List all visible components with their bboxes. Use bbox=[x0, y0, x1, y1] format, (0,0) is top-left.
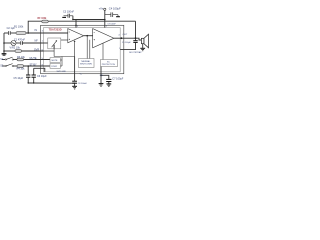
svg-text:BOOTSTRAP: BOOTSTRAP bbox=[129, 51, 142, 54]
wire ground pin drop bbox=[74, 57, 76, 81]
block THERMAL SHUTDOWN bbox=[79, 59, 95, 68]
op-amp A2 bbox=[93, 29, 114, 48]
wire S2 to R4 bbox=[13, 65, 17, 67]
svg-text:+Vs: +Vs bbox=[99, 7, 104, 11]
svg-text:ST-BY: ST-BY bbox=[30, 64, 38, 67]
capacitor CB bootstrap bbox=[133, 41, 137, 43]
wire out pin to bootstrap node bbox=[122, 37, 136, 39]
ground symbol bottom1 bbox=[72, 86, 77, 89]
capacitor C6 bbox=[32, 75, 36, 77]
wire R3 to pin 5 and MUTE block bbox=[24, 59, 51, 61]
wire pin 3 to A1 bbox=[44, 32, 68, 34]
node left rail row2 bbox=[3, 42, 5, 44]
wire thermal block top stub 2 bbox=[89, 40, 91, 59]
node ground rail end bbox=[74, 83, 75, 84]
wire MUTE block stub bbox=[60, 59, 62, 61]
svg-text:IN: IN bbox=[35, 29, 38, 32]
svg-text:ST-BY: ST-BY bbox=[51, 66, 58, 68]
svg-text:NF: NF bbox=[35, 39, 39, 42]
node C5 tap bbox=[27, 65, 29, 67]
block MUTE bbox=[50, 58, 60, 63]
ground for C4 bbox=[116, 15, 120, 17]
wire bootstrap node to speaker bbox=[136, 38, 142, 40]
op-amp A1 bbox=[68, 29, 84, 43]
wire switch S2 stub bbox=[2, 65, 5, 67]
wire ST-BY block stub bbox=[60, 65, 62, 67]
svg-text:SVR GND: SVR GND bbox=[57, 71, 67, 73]
svg-text:R3 10k: R3 10k bbox=[17, 56, 26, 59]
wire bottom ground rail bbox=[28, 82, 74, 84]
speaker LS1 bbox=[141, 38, 144, 43]
svg-text:C6 10µF: C6 10µF bbox=[37, 75, 47, 78]
wire pin 1 to volume control bbox=[44, 42, 48, 44]
wire input row1 mid bbox=[11, 32, 16, 34]
wire internal control bus bbox=[54, 56, 75, 58]
wire volume control to A1 bbox=[61, 39, 68, 41]
wire +Vs rail bbox=[73, 16, 105, 20]
wire to C7 bbox=[101, 75, 109, 79]
capacitor C8 bbox=[72, 81, 77, 83]
wire input row2 to pin 1 bbox=[22, 42, 43, 44]
switch S2 bbox=[5, 65, 6, 66]
block protection bbox=[101, 60, 118, 67]
svg-text:SHUTDOWN: SHUTDOWN bbox=[80, 64, 92, 66]
capacitor C7 bbox=[106, 79, 111, 81]
IC U1 TDA7233D inner box bbox=[44, 28, 121, 72]
ground left rail bbox=[2, 53, 7, 55]
wire input row2 left bbox=[4, 42, 11, 44]
node pin 2 outer box bbox=[75, 25, 77, 27]
wire S1 to R3 bbox=[13, 59, 17, 61]
node A1 output bbox=[86, 35, 88, 37]
wire RF to bootstrap corner bbox=[48, 20, 135, 22]
svg-text:R4 10k: R4 10k bbox=[17, 68, 26, 71]
svg-text:PROTECTION: PROTECTION bbox=[102, 64, 116, 66]
capacitor C4 bbox=[105, 12, 118, 17]
resistor R3 bbox=[17, 58, 24, 61]
wire left rail bbox=[3, 33, 5, 53]
wire input row3 left bbox=[4, 50, 15, 52]
capacitor C2 bbox=[9, 31, 11, 35]
svg-text:RF 100k: RF 100k bbox=[38, 18, 48, 20]
ground for speaker bbox=[140, 48, 145, 51]
block volume control bbox=[48, 38, 61, 49]
svg-text:C1 470nF: C1 470nF bbox=[14, 38, 25, 41]
wire A1 out to A2 bbox=[84, 35, 93, 37]
source V1 bbox=[11, 41, 16, 46]
wire speaker to ground bbox=[142, 44, 144, 48]
node C3 tap bbox=[72, 19, 73, 20]
node Vs rail end bbox=[104, 19, 106, 21]
capacitor C1 bbox=[21, 41, 23, 45]
ground symbol bottom2 bbox=[99, 84, 104, 87]
IC U1 TDA7233D outer box bbox=[41, 25, 124, 73]
wire power ground pin drop bbox=[100, 67, 102, 84]
svg-text:C8 100nF: C8 100nF bbox=[78, 83, 88, 85]
wire bootstrap vertical drop bbox=[135, 21, 137, 38]
wire C6 dogleg to bottom pin bbox=[34, 68, 45, 72]
svg-text:C4 100µF: C4 100µF bbox=[109, 7, 121, 11]
wire C7 bottom lead bbox=[108, 82, 110, 84]
resistor R4 bbox=[17, 65, 24, 68]
wire C5 top lead bbox=[27, 66, 29, 75]
wire pin 6 to volume control bbox=[44, 50, 55, 52]
wire supply vertical to pin 7 bbox=[104, 10, 106, 27]
svg-text:R1 100k: R1 100k bbox=[14, 25, 24, 28]
svg-text:R2 10k: R2 10k bbox=[12, 47, 21, 50]
svg-text:THERMAL: THERMAL bbox=[81, 60, 91, 63]
wire input row3 to pin 6 bbox=[22, 50, 44, 52]
svg-text:C7 100µF: C7 100µF bbox=[112, 78, 124, 81]
capacitor C5 bbox=[26, 75, 30, 77]
wire bootstrap cap top lead bbox=[135, 38, 137, 40]
wire control arrow to A1 bbox=[74, 41, 76, 56]
wire C5 bottom lead bbox=[27, 78, 29, 84]
node C7 tap bbox=[100, 75, 102, 77]
wire blocks right vertical bbox=[61, 57, 63, 67]
ground for C3 bbox=[62, 16, 66, 18]
svg-text:MUTE: MUTE bbox=[52, 60, 59, 62]
ground for C7 bbox=[106, 84, 111, 87]
wire thermal block top stub 1 bbox=[86, 36, 88, 59]
wire CB to bootstrap pin bbox=[120, 43, 135, 50]
svg-text:MUTE: MUTE bbox=[30, 57, 37, 60]
svg-text:PW: PW bbox=[100, 75, 103, 77]
wire pin 2 drop from Vs rail bbox=[75, 20, 77, 28]
wire volume control bottom bbox=[53, 49, 55, 57]
svg-text:C5 100µF: C5 100µF bbox=[122, 42, 132, 44]
wire switch S1 stub bbox=[2, 59, 5, 61]
svg-text:TDA7233D: TDA7233D bbox=[49, 27, 62, 31]
node C5 rail bbox=[28, 82, 29, 83]
wire R4 to pin 8 and ST-BY block bbox=[24, 65, 51, 67]
block ST-BY bbox=[50, 64, 60, 69]
svg-text:OUT: OUT bbox=[123, 34, 128, 36]
wire C6 bottom lead bbox=[33, 78, 35, 84]
wire protection block top stub bbox=[102, 43, 104, 59]
node feedback junction bbox=[27, 32, 29, 34]
op-amp input polarity marks bbox=[69, 32, 95, 40]
svg-text:C3 100nF: C3 100nF bbox=[63, 10, 74, 13]
wire input row2 mid bbox=[16, 42, 20, 44]
supply terminal +Vs bbox=[104, 8, 106, 10]
wire input row1 left bbox=[4, 32, 8, 34]
resistor R1 bbox=[16, 32, 26, 35]
wire input row1 to pin 3 bbox=[26, 32, 44, 34]
node bootstrap bbox=[135, 37, 137, 39]
wire C8 bottom lead bbox=[74, 83, 76, 86]
svg-text:C5 10µF: C5 10µF bbox=[14, 77, 24, 80]
capacitor C3 bbox=[64, 14, 73, 18]
node C6 rail bbox=[33, 82, 34, 83]
switch S1 bbox=[5, 59, 6, 60]
wire feedback node to RF bbox=[28, 21, 42, 33]
wire C6 top lead bbox=[33, 68, 35, 74]
node left rail row3 bbox=[3, 50, 5, 52]
svg-text:Vs: Vs bbox=[80, 74, 82, 76]
resistor RF bbox=[42, 20, 48, 23]
svg-text:SVR: SVR bbox=[34, 48, 39, 51]
resistor R2 bbox=[15, 50, 22, 53]
svg-text:C9 100nF: C9 100nF bbox=[107, 24, 116, 26]
node OUT pin bbox=[121, 37, 123, 39]
wire A2 out to pin 4 bbox=[114, 37, 122, 39]
